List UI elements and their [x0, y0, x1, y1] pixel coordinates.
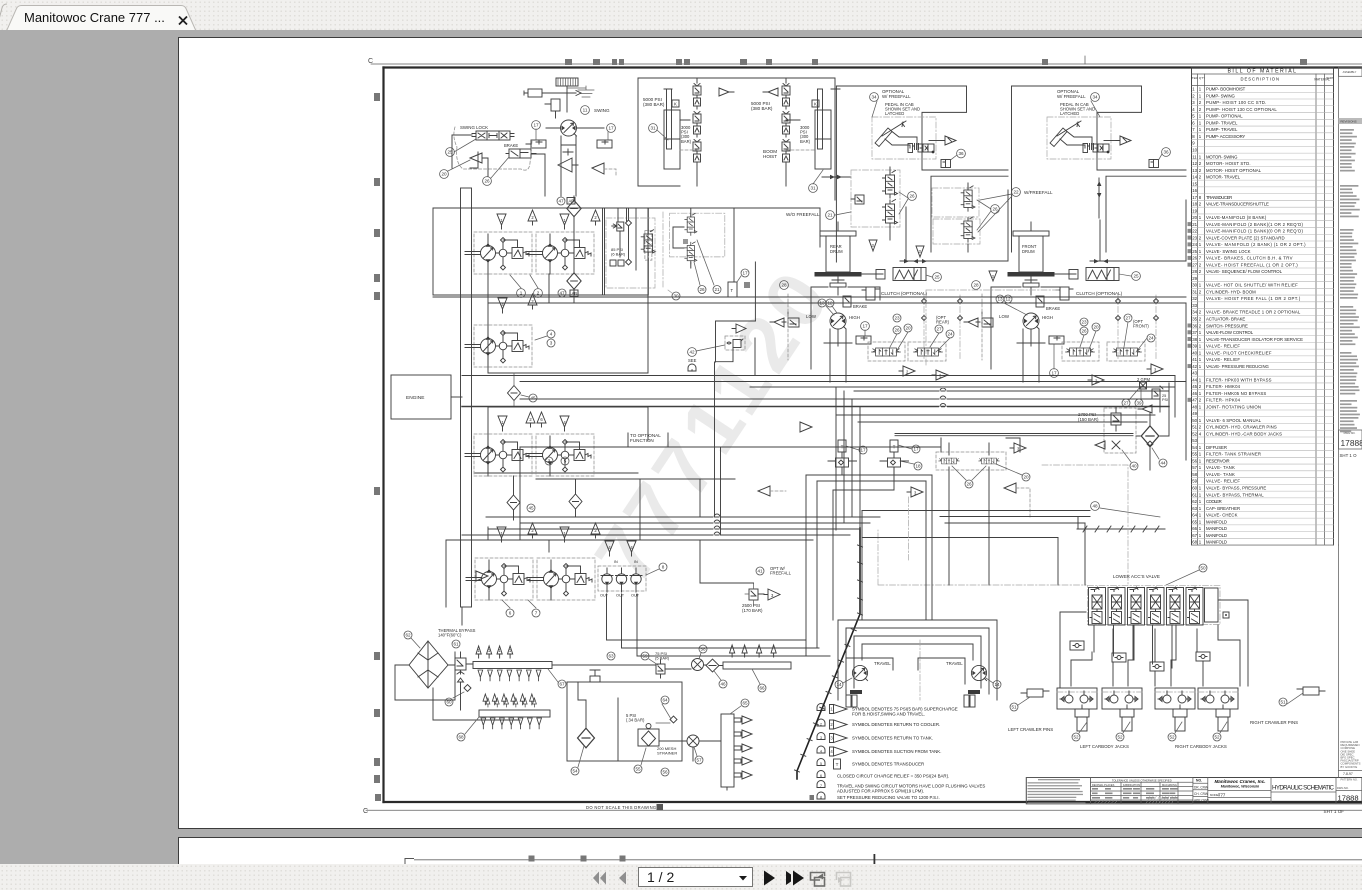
leader 31 left — [649, 124, 658, 133]
svg-text:BRAKE: BRAKE — [1046, 306, 1060, 311]
double right arrow (black) — [786, 871, 791, 885]
svg-text:28: 28 — [781, 283, 787, 288]
svg-text:6: 6 — [509, 611, 512, 616]
double left arrow (gray) — [593, 872, 599, 885]
svg-text:VALVE- RELIEF: VALVE- RELIEF — [1206, 479, 1240, 484]
svg-text:27: 27 — [1123, 401, 1129, 406]
label 22 w/freefall — [1012, 188, 1021, 197]
svg-text:BAR): BAR) — [681, 139, 692, 144]
svg-text:48: 48 — [1092, 504, 1098, 509]
svg-text:35: 35 — [1192, 317, 1197, 322]
svg-text:54: 54 — [1192, 445, 1197, 450]
svg-text:47: 47 — [558, 199, 564, 204]
svg-text:42: 42 — [1192, 364, 1197, 369]
svg-text:56: 56 — [1192, 458, 1197, 463]
cooler loop wires — [395, 652, 520, 720]
rear treadle valves 34 — [868, 342, 905, 361]
junction arrows swing bus — [830, 175, 842, 179]
svg-text:DESCRIPTION: DESCRIPTION — [1240, 77, 1280, 82]
svg-text:25: 25 — [1133, 274, 1139, 279]
svg-text:FILTER- HMK04: FILTER- HMK04 — [1206, 384, 1241, 389]
svg-text:1: 1 — [1199, 377, 1202, 382]
svg-text:45: 45 — [1192, 384, 1197, 389]
svg-text:22: 22 — [1013, 190, 1019, 195]
svg-text:3: 3 — [830, 736, 833, 741]
w freefall group 22 — [932, 188, 979, 217]
svg-text:1: 1 — [1199, 215, 1202, 220]
svg-text:20: 20 — [441, 172, 447, 177]
svg-text:LATCHED: LATCHED — [885, 111, 904, 116]
close X — [179, 17, 187, 25]
bus jogs — [714, 514, 720, 517]
svg-text:CYLINDER- HYD.-CAR BODY JACKS: CYLINDER- HYD.-CAR BODY JACKS — [1206, 431, 1282, 436]
svg-text:VALVE- PRESSURE REDUCING: VALVE- PRESSURE REDUCING — [1206, 364, 1270, 369]
svg-text:2: 2 — [1192, 93, 1195, 98]
front motor cluster — [991, 287, 1060, 369]
valve stack left — [693, 84, 701, 110]
front arrows below — [1088, 375, 1104, 385]
revision history column — [1339, 67, 1362, 545]
svg-text:DIFFUSER: DIFFUSER — [1206, 445, 1227, 450]
svg-text:SWING: SWING — [594, 108, 610, 113]
breather 63 — [590, 676, 600, 682]
svg-text:1: 1 — [1199, 127, 1202, 132]
svg-text:47: 47 — [559, 291, 565, 296]
shuttle nest rails — [806, 475, 932, 481]
svg-text:PUMP- SWING: PUMP- SWING — [1206, 93, 1235, 98]
svg-text:REVISIONS: REVISIONS — [1340, 120, 1356, 124]
svg-text:TRANSDUCER: TRANSDUCER — [1206, 195, 1232, 200]
svg-text:1: 1 — [1199, 87, 1202, 92]
svg-text:63: 63 — [608, 654, 614, 659]
svg-text:27: 27 — [1125, 316, 1131, 321]
rear clutch — [866, 287, 875, 300]
svg-text:56: 56 — [662, 770, 668, 775]
svg-text:2: 2 — [1199, 310, 1202, 315]
travel dashed centerline — [919, 640, 921, 700]
svg-text:65: 65 — [1192, 519, 1197, 524]
svg-text:VALVE-COVER PLATE (2) STANDARD: VALVE-COVER PLATE (2) STANDARD — [1206, 235, 1285, 240]
misc left arrows — [800, 422, 812, 432]
svg-text:64: 64 — [1192, 513, 1197, 518]
pump P1 boomhoist — [465, 232, 532, 274]
junction arrows front — [1094, 259, 1108, 263]
transducer 36 right — [1149, 160, 1159, 168]
pump P2 swing — [527, 232, 594, 274]
svg-text:PART: PART — [1326, 76, 1333, 80]
pilot check boxes — [1070, 641, 1084, 650]
svg-text:AB: AB — [569, 199, 575, 204]
svg-text:13: 13 — [1192, 168, 1197, 173]
pump row3 frame — [475, 407, 735, 479]
svg-text:43: 43 — [1192, 371, 1197, 376]
return manifold 66 — [723, 662, 791, 669]
svg-text:68: 68 — [458, 735, 464, 740]
svg-text:VALVE- RELIEF: VALVE- RELIEF — [1206, 344, 1240, 349]
svg-text:VALVE- CHECK: VALVE- CHECK — [1206, 513, 1238, 518]
svg-text:RIGHT CARBODY JACKS: RIGHT CARBODY JACKS — [1175, 744, 1227, 749]
boom hoist section frame — [638, 78, 835, 200]
svg-text:45: 45 — [528, 506, 534, 511]
svg-text:777: 777 — [1218, 793, 1226, 798]
sheet border heavy bottom — [384, 801, 1362, 803]
warning tri front — [989, 271, 997, 281]
svg-text:33: 33 — [1192, 303, 1197, 308]
pump drive shaft rail — [461, 188, 472, 607]
top tick line — [371, 63, 1362, 65]
travel motor left — [852, 665, 867, 680]
svg-text:1: 1 — [1199, 357, 1202, 362]
top frame mid tick — [1084, 56, 1086, 64]
svg-text:18: 18 — [915, 464, 921, 469]
svg-text:REAR): REAR) — [936, 320, 950, 325]
travel bracket boxes — [846, 658, 965, 684]
svg-text:7-8-97: 7-8-97 — [1343, 772, 1353, 776]
wire motor ports — [546, 128, 604, 196]
private label note strip — [1339, 545, 1362, 782]
svg-text:C: C — [363, 808, 368, 815]
bottom toolbar — [0, 864, 1362, 890]
acc valve column 6 — [1186, 587, 1203, 625]
svg-text:2: 2 — [1199, 323, 1202, 328]
svg-text:24: 24 — [947, 332, 953, 337]
svg-text:52: 52 — [1073, 735, 1079, 740]
svg-text:SWING LOCK: SWING LOCK — [460, 125, 488, 130]
svg-text:52: 52 — [1117, 735, 1123, 740]
svg-text:17888: 17888 — [1338, 794, 1359, 803]
svg-text:1: 1 — [1199, 364, 1202, 369]
svg-text:1: 1 — [1199, 445, 1202, 450]
svg-text:3: 3 — [1192, 100, 1195, 105]
supply triangles row4 — [497, 527, 506, 542]
jack feed wires — [1060, 600, 1248, 688]
bottom tick line — [366, 809, 1362, 811]
svg-text:28: 28 — [973, 283, 979, 288]
svg-text:1: 1 — [1199, 513, 1202, 518]
svg-text:VALVE- SEQUENCE/ FLOW CONTROL: VALVE- SEQUENCE/ FLOW CONTROL — [1206, 269, 1283, 274]
svg-text:1: 1 — [1199, 249, 1202, 254]
svg-text:17: 17 — [862, 324, 868, 329]
left crawler pin cylinder 51 — [1027, 689, 1043, 697]
svg-text:21: 21 — [714, 287, 720, 292]
svg-text:58: 58 — [700, 647, 706, 652]
svg-text:TOLERANCE UNLESS OTHERWISE SPE: TOLERANCE UNLESS OTHERWISE SPECIFIED — [1112, 778, 1172, 782]
active tab — [0, 6, 196, 32]
pedal outer frame left — [836, 86, 1008, 262]
svg-text:21: 21 — [1192, 222, 1197, 227]
svg-text:26: 26 — [484, 179, 490, 184]
svg-text:SEE: SEE — [688, 358, 697, 363]
svg-text:20: 20 — [1192, 215, 1197, 220]
svg-text:1: 1 — [1199, 283, 1202, 288]
svg-text:6: 6 — [820, 774, 822, 778]
page2 content — [178, 838, 1362, 864]
svg-text:PUMP- OPTIONAL: PUMP- OPTIONAL — [1206, 114, 1243, 119]
svg-text:65: 65 — [742, 701, 748, 706]
dashed pilot rails front — [1118, 295, 1156, 360]
supply triangles row1 — [497, 214, 506, 229]
svg-text:MANIFOLD: MANIFOLD — [1206, 540, 1227, 545]
svg-text:SHT 1 O: SHT 1 O — [1340, 453, 1358, 458]
svg-text:VALVE- TANK: VALVE- TANK — [1206, 465, 1235, 470]
svg-text:DO NOT SCALE THIS DRAWING: DO NOT SCALE THIS DRAWING — [586, 805, 656, 810]
svg-text:14: 14 — [836, 682, 842, 687]
svg-text:12: 12 — [1192, 161, 1197, 166]
svg-text:1: 1 — [1199, 486, 1202, 491]
svg-text:28: 28 — [1192, 269, 1197, 274]
svg-text:LATCHED: LATCHED — [1060, 111, 1079, 116]
svg-text:HOIST: HOIST — [763, 154, 777, 159]
svg-text:1: 1 — [1199, 350, 1202, 355]
svg-text:MOTOR- TRAVEL: MOTOR- TRAVEL — [1206, 175, 1241, 180]
svg-text:W/FREEFALL: W/FREEFALL — [1024, 190, 1053, 195]
svg-text:3: 3 — [548, 459, 551, 464]
svg-text:OUT: OUT — [600, 594, 609, 598]
svg-text:PUMP- TRAVEL: PUMP- TRAVEL — [1206, 120, 1238, 125]
svg-text:68: 68 — [1192, 540, 1197, 545]
rear drum — [815, 222, 862, 295]
svg-text:36: 36 — [1163, 150, 1169, 155]
svg-text:2: 2 — [1199, 262, 1202, 267]
svg-text:PUMP- BOOMHOIST: PUMP- BOOMHOIST — [1206, 87, 1246, 92]
svg-text:OUT: OUT — [616, 594, 625, 598]
carbody jack RR — [1198, 688, 1238, 731]
svg-text:57: 57 — [696, 758, 702, 763]
svg-text:(6 BAR): (6 BAR) — [611, 252, 626, 257]
svg-text:FRONT): FRONT) — [1133, 324, 1149, 329]
svg-text:1: 1 — [1199, 344, 1202, 349]
svg-text:LEFT CARBODY JACKS: LEFT CARBODY JACKS — [1080, 744, 1129, 749]
svg-text:VALVE- RELIEF: VALVE- RELIEF — [1206, 357, 1240, 362]
svg-text:W/ FREEFALL: W/ FREEFALL — [882, 94, 911, 99]
freefall solid box left — [931, 176, 1008, 252]
svg-text:DECIMAL PLACES: DECIMAL PLACES — [1092, 783, 1115, 787]
check K box left — [672, 100, 679, 107]
svg-text:FILTER- HPK04: FILTER- HPK04 — [1206, 398, 1241, 403]
svg-text:60: 60 — [446, 700, 452, 705]
svg-text:7: 7 — [1192, 127, 1195, 132]
left zone tick boxes — [374, 93, 381, 801]
svg-text:8: 8 — [1192, 134, 1195, 139]
svg-text:T: T — [836, 762, 839, 767]
transducer 17 front motor — [1050, 369, 1059, 378]
svg-text:PUMP- ACCESSORY: PUMP- ACCESSORY — [1206, 134, 1245, 139]
svg-text:27: 27 — [936, 327, 942, 332]
svg-text:6: 6 — [1192, 120, 1195, 125]
ticked bundle line — [1077, 528, 1165, 530]
svg-text:2: 2 — [1199, 202, 1202, 207]
transducer shuttle 17 18 left — [836, 440, 849, 467]
svg-text:52: 52 — [1169, 735, 1175, 740]
pedal outer frame right — [1012, 86, 1187, 252]
svg-text:19: 19 — [1192, 208, 1197, 213]
svg-text:17: 17 — [608, 126, 614, 131]
svg-text:38: 38 — [1192, 337, 1197, 342]
swing lock pilot cloud — [454, 127, 532, 170]
svg-text:VALVE- MANIFOLD (2 BANK) (1 OR: VALVE- MANIFOLD (2 BANK) (1 OR 2 OPT.) — [1206, 242, 1306, 247]
rear arrows below — [899, 366, 915, 376]
svg-text:23: 23 — [894, 316, 900, 321]
svg-text:46: 46 — [720, 682, 726, 687]
transducer 17 left — [531, 140, 546, 148]
top zone tick boxes — [565, 59, 1307, 65]
acc valve column 2 — [1108, 587, 1125, 625]
svg-text:55: 55 — [635, 767, 641, 772]
strainer 55 — [638, 729, 659, 746]
svg-text:1: 1 — [1199, 114, 1202, 119]
svg-text:2: 2 — [537, 291, 540, 296]
svg-text:1: 1 — [1192, 87, 1195, 92]
svg-text:23: 23 — [1081, 320, 1087, 325]
svg-text:4: 4 — [1192, 107, 1195, 112]
svg-text:7: 7 — [820, 784, 822, 788]
svg-text:SYMBOL DENOTES SUCTION FROM TA: SYMBOL DENOTES SUCTION FROM TANK. — [852, 749, 941, 754]
svg-text:VALVE- TANK: VALVE- TANK — [1206, 472, 1235, 477]
svg-text:OUT: OUT — [631, 594, 640, 598]
svg-text:PUMP- HOIST 130 CC OPTIONAL: PUMP- HOIST 130 CC OPTIONAL — [1206, 107, 1277, 112]
cross port valve — [563, 149, 573, 155]
svg-text:2: 2 — [1199, 161, 1202, 166]
svg-text:1: 1 — [830, 707, 833, 712]
junction arrows rear — [904, 259, 927, 263]
travel nest loops — [838, 620, 997, 700]
svg-text:VALVE- BRAKE TREADLE 1 OR 2 OP: VALVE- BRAKE TREADLE 1 OR 2 OPTIONAL — [1206, 310, 1301, 315]
svg-text:51: 51 — [1011, 705, 1017, 710]
svg-text:5: 5 — [1192, 114, 1195, 119]
svg-text:HYDRAULIC SCHEMATIC: HYDRAULIC SCHEMATIC — [1272, 784, 1335, 791]
svg-text:11: 11 — [583, 108, 588, 113]
svg-text:60: 60 — [1192, 486, 1197, 491]
svg-text:MACHINING: MACHINING — [1162, 783, 1177, 787]
svg-text:IN: IN — [634, 560, 638, 564]
svg-text:26: 26 — [699, 287, 705, 292]
svg-text:8: 8 — [691, 369, 693, 373]
pump row1 frame — [433, 208, 820, 302]
check K box right — [812, 100, 819, 107]
svg-text:17: 17 — [742, 271, 748, 276]
filter diamonds row3 — [507, 495, 520, 510]
svg-text:2: 2 — [1199, 175, 1202, 180]
svg-text:52: 52 — [1214, 735, 1220, 740]
svg-text:67: 67 — [559, 682, 565, 687]
relief 25 psi — [1152, 389, 1160, 399]
svg-text:1: 1 — [1199, 506, 1202, 511]
svg-text:1: 1 — [1199, 526, 1202, 531]
arrow 3 mid nest — [907, 487, 923, 497]
svg-text:22: 22 — [1192, 229, 1197, 234]
svg-text:64: 64 — [662, 698, 668, 703]
svg-text:VALVE- BRAKES, CLUTCH B.H. &: VALVE- BRAKES, CLUTCH B.H. & TRV — [1206, 256, 1293, 261]
BOM table — [1188, 67, 1334, 545]
brake pedal treadle 34 right — [1047, 117, 1111, 159]
svg-text:39: 39 — [1136, 401, 1142, 406]
feeder right side verticals — [949, 376, 1175, 586]
nested corner bundle — [833, 467, 894, 620]
leaders 1 2 — [517, 289, 526, 298]
supply triangles row3 — [498, 416, 507, 431]
svg-text:PSI: PSI — [1162, 398, 1168, 402]
warning tri rear — [869, 240, 877, 251]
svg-text:PUMP- HOIST 100 CC STD.: PUMP- HOIST 100 CC STD. — [1206, 100, 1266, 105]
svg-text:16: 16 — [1192, 188, 1197, 193]
svg-text:T: T — [731, 288, 734, 293]
valve 42 pressure reducing — [725, 336, 745, 350]
svg-text:2: 2 — [594, 215, 597, 220]
svg-text:20: 20 — [1023, 475, 1029, 480]
notes list — [810, 704, 986, 801]
svg-text:VALVE- 6 SPOOL MANUAL: VALVE- 6 SPOOL MANUAL — [1206, 418, 1262, 423]
filter diamond 47 bottom — [567, 273, 581, 290]
feed bundle to manifold — [1093, 625, 1095, 652]
svg-text:VALVE- PILOT CHECK/RELIEF: VALVE- PILOT CHECK/RELIEF — [1206, 350, 1272, 355]
svg-text:1: 1 — [1199, 492, 1202, 497]
rear drum brake actuator 25 — [862, 273, 884, 275]
svg-text:(170 BAR): (170 BAR) — [742, 608, 763, 613]
svg-text:51: 51 — [1192, 425, 1197, 430]
relief arrow left — [719, 88, 734, 96]
right crawler pin cylinder 51 — [1303, 687, 1319, 695]
svg-text:8: 8 — [662, 565, 665, 570]
carbody jack LF — [1057, 688, 1097, 731]
svg-text:47: 47 — [1192, 398, 1197, 403]
svg-text:DWG NO.: DWG NO. — [1337, 786, 1349, 790]
transducer 17 right — [597, 140, 612, 148]
rear motor cluster — [811, 287, 880, 369]
filter diamond 44 — [1141, 426, 1159, 446]
svg-text:VALVE-TRANSDUCER/SHUTTLE: VALVE-TRANSDUCER/SHUTTLE — [1206, 202, 1269, 207]
pump P7 travel — [528, 558, 595, 600]
wires freefall to drums — [890, 167, 968, 252]
transducer 36 left — [941, 160, 951, 168]
solenoid box — [551, 99, 560, 111]
svg-text:27: 27 — [1192, 262, 1197, 267]
svg-text:DR. CRW: DR. CRW — [1194, 785, 1208, 789]
svg-text:2: 2 — [1199, 235, 1202, 240]
svg-text:61: 61 — [453, 642, 459, 647]
svg-text:NO.: NO. — [1196, 779, 1202, 783]
page combo box — [639, 868, 753, 887]
svg-text:40: 40 — [1131, 464, 1137, 469]
relief arrow right — [763, 88, 778, 96]
leader circles 25 20 26 — [446, 148, 455, 157]
svg-text:2: 2 — [830, 722, 833, 727]
suction manifold upper 67 — [473, 662, 552, 669]
svg-text:K: K — [674, 102, 677, 107]
svg-text:LOWER ACC'S VALVE: LOWER ACC'S VALVE — [1113, 574, 1160, 579]
svg-text:BAR): BAR) — [800, 139, 811, 144]
carbody jack RF — [1155, 688, 1195, 731]
svg-text:2: 2 — [1199, 289, 1202, 294]
svg-text:1: 1 — [1199, 120, 1202, 125]
svg-text:25: 25 — [934, 275, 940, 280]
svg-text:2: 2 — [529, 417, 532, 422]
pump row2 frame — [488, 303, 1186, 460]
svg-text:APP CRW: APP CRW — [1194, 799, 1209, 803]
pump P3 hoist — [465, 325, 532, 367]
acc valve column 1 — [1089, 587, 1106, 625]
svg-text:36: 36 — [1192, 323, 1197, 328]
icon: disabled (light) — [837, 873, 851, 887]
icon: fit content (dark) — [811, 873, 825, 887]
svg-text:FABRICATION: FABRICATION — [1123, 783, 1140, 787]
boom cylinder 31 right — [815, 89, 831, 169]
svg-text:1: 1 — [1199, 242, 1202, 247]
svg-text:21: 21 — [827, 213, 833, 218]
wires boom hoist — [664, 78, 840, 186]
svg-text:ADJUSTED FOR APPROX 5 GPM(19 L: ADJUSTED FOR APPROX 5 GPM(19 LPM). — [837, 788, 924, 793]
svg-text:66: 66 — [759, 686, 765, 691]
wires swing brake feeds — [452, 135, 545, 196]
